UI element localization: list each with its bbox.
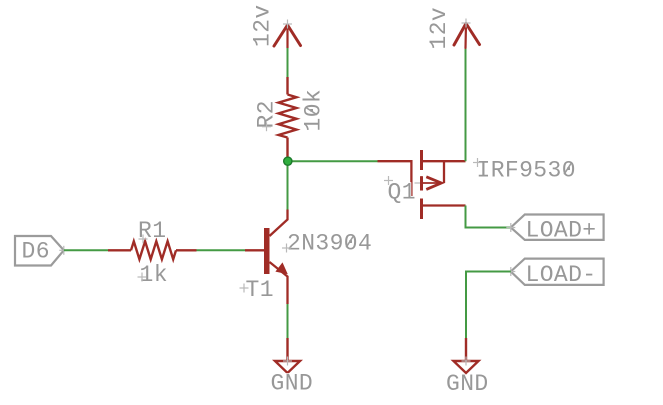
emitter arm [270, 262, 288, 304]
text cross R1 [139, 235, 148, 244]
ground GND (right) [454, 338, 479, 373]
part origin cross Q1 [415, 176, 429, 190]
wire T1 collector to junction [287, 161, 289, 209]
wire LOAD- to GND (right) [466, 272, 511, 339]
base bar [264, 228, 270, 274]
slashed zero in 10k [306, 107, 318, 114]
wire T1 emitter to GND (left) [287, 304, 289, 338]
svg-text:1k: 1k [140, 262, 168, 288]
svg-text:D6: D6 [22, 239, 50, 265]
wire D6 to R1 [64, 249, 108, 251]
gate pin and gate plate [378, 161, 412, 197]
slashed zero in 2N3904 [346, 236, 353, 248]
bulk line to source [443, 161, 445, 183]
svg-text:2N3904: 2N3904 [287, 231, 372, 257]
text cross IRF9530 [473, 158, 482, 167]
channel segment bottom [420, 199, 423, 220]
slashed zero in IRF9530 [564, 163, 571, 175]
text cross Q1 [384, 176, 393, 185]
connector D6 [15, 236, 64, 266]
wire R1 to T1 base [197, 249, 246, 251]
drain connection top [422, 160, 466, 162]
wire Q1 source to LOAD+ [466, 206, 511, 228]
collector arm [270, 210, 288, 237]
svg-text:GND: GND [446, 371, 489, 397]
text cross T1 [240, 284, 249, 293]
svg-text:LOAD+: LOAD+ [526, 218, 597, 244]
wire junction to Q1 gate [291, 160, 378, 162]
channel segment middle [420, 176, 423, 190]
wire 12V to R2 [287, 48, 289, 77]
channel segment top [420, 150, 423, 170]
source connection bottom [422, 204, 466, 206]
emitter arrow head [275, 262, 287, 274]
svg-text:T1: T1 [246, 277, 274, 303]
svg-text:R1: R1 [138, 218, 166, 244]
pin cross D6 tip [59, 246, 68, 255]
svg-text:10k: 10k [301, 89, 327, 132]
bulk arrow head open V [426, 177, 441, 190]
svg-text:LOAD-: LOAD- [526, 262, 597, 288]
text cross R2 [262, 122, 271, 131]
resistor R2 [279, 77, 297, 159]
pin cross LOAD- tip [506, 267, 515, 276]
bulk arrow tail [422, 182, 441, 184]
text cross 2N3904 [282, 244, 291, 253]
svg-text:12v: 12v [250, 4, 276, 47]
wire Q1 drain to 12V (right) [465, 48, 467, 161]
text cross 1k [138, 273, 147, 282]
power flag 12V (left) [274, 25, 301, 48]
pin cross GND left [283, 357, 292, 366]
pin cross 12V left tip [283, 20, 292, 29]
power flag 12V (right) [454, 24, 480, 49]
junction node collector/gate [284, 157, 292, 165]
base pin [245, 249, 264, 251]
svg-text:IRF9530: IRF9530 [477, 158, 576, 184]
pin cross GND right [462, 357, 471, 366]
transistor Q1 IRF9530 [378, 150, 466, 219]
pin cross 12V right tip [462, 19, 471, 28]
svg-text:12v: 12v [426, 7, 452, 50]
resistor R1 [108, 241, 197, 259]
connector LOAD+ [511, 215, 604, 240]
pin cross LOAD+ tip [506, 223, 515, 232]
svg-text:Q1: Q1 [388, 180, 416, 206]
connector LOAD- [511, 259, 604, 285]
transistor T1 2N3904 [245, 210, 288, 305]
svg-text:GND: GND [271, 371, 314, 397]
ground GND (left) [275, 338, 300, 373]
